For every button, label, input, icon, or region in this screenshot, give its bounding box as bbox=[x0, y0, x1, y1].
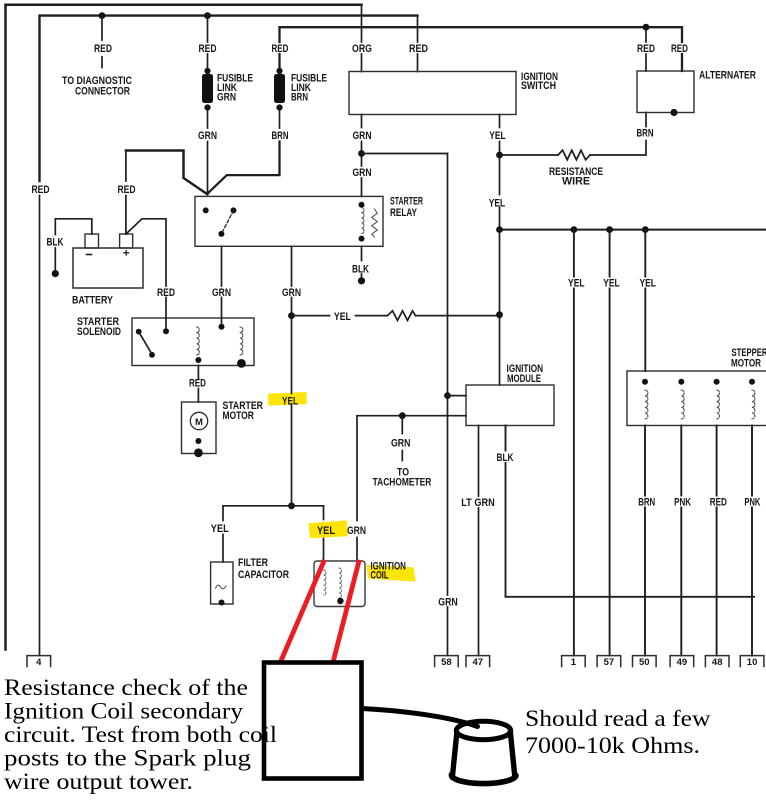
svg-text:SOLENOID: SOLENOID bbox=[77, 326, 121, 338]
wire YEL with resistor to ignition module riser bbox=[292, 315, 500, 317]
node YEL bus junction bbox=[496, 226, 503, 233]
wire RED stepper to terminal 48 bbox=[716, 426, 718, 656]
svg-text:GRN: GRN bbox=[438, 597, 458, 609]
coil tower cylinder sides bbox=[452, 732, 515, 778]
battery box bbox=[73, 248, 143, 288]
filter capacitor box bbox=[211, 562, 233, 604]
svg-text:WIRE: WIRE bbox=[562, 176, 590, 188]
svg-text:58: 58 bbox=[441, 657, 452, 668]
svg-text:YEL: YEL bbox=[317, 525, 335, 537]
wire: charge rail BRN/RED to alternator bbox=[280, 27, 683, 71]
resistor zigzag on YEL line bbox=[388, 311, 416, 321]
svg-text:ALTERNATER: ALTERNATER bbox=[699, 70, 756, 82]
stepper winding 2 bbox=[678, 379, 684, 385]
svg-text:GRN: GRN bbox=[282, 287, 301, 299]
ignition coil winding 1 bbox=[324, 570, 327, 595]
resistor zigzag of resistance wire bbox=[558, 150, 590, 160]
node YEL line at ignition switch riser bbox=[496, 311, 503, 318]
relay contact dots bbox=[203, 207, 237, 237]
ignition coil box bbox=[314, 561, 365, 607]
svg-text:YEL: YEL bbox=[603, 278, 620, 290]
wire RED stub to diagnostic connector bbox=[101, 16, 103, 68]
wire GRN from ignition switch bbox=[361, 115, 363, 197]
svg-text:RED: RED bbox=[118, 184, 136, 196]
battery terminals bbox=[85, 234, 99, 248]
wire RED rail drop to terminal 4 bbox=[39, 196, 41, 656]
svg-text:circuit. Test from both coil: circuit. Test from both coil bbox=[4, 722, 277, 747]
node YEL column 1 bbox=[571, 226, 578, 233]
terminal 4 bbox=[27, 656, 51, 667]
wire YEL to stepper motor bbox=[644, 230, 646, 371]
svg-text:PNK: PNK bbox=[744, 497, 760, 509]
red probe line left bbox=[280, 560, 325, 664]
wire RED into fusible link BRN bbox=[279, 111, 281, 128]
svg-text:BLK: BLK bbox=[352, 264, 369, 276]
highlight marker YEL on wire above ignition coil feed bbox=[268, 392, 307, 406]
svg-text:RED: RED bbox=[189, 378, 206, 390]
terminal 57 bbox=[597, 656, 621, 667]
highlight marker YEL GRN above ignition coil bbox=[309, 520, 348, 538]
svg-text:Should read a few: Should read a few bbox=[525, 706, 711, 732]
terminal 10 bbox=[740, 656, 764, 667]
wire BRN from fusible link down and into relay V bbox=[207, 142, 279, 194]
svg-text:MOTOR: MOTOR bbox=[731, 358, 761, 370]
svg-text:7000-10k Ohms.: 7000-10k Ohms. bbox=[525, 733, 700, 759]
svg-text:YEL: YEL bbox=[282, 396, 298, 408]
svg-text:ORG: ORG bbox=[352, 43, 372, 55]
highlight marker on IGNITION COIL label bbox=[367, 565, 416, 582]
wire PNK stepper to terminal 10 bbox=[751, 426, 753, 656]
svg-text:TACHOMETER: TACHOMETER bbox=[373, 477, 432, 489]
svg-text:1: 1 bbox=[571, 657, 577, 668]
wire YEL bus to right edge bbox=[500, 229, 766, 231]
svg-text:RELAY: RELAY bbox=[390, 207, 417, 219]
wire GRN relay output long run bbox=[291, 246, 293, 506]
terminal 1 bbox=[562, 656, 586, 667]
terminal 48 bbox=[705, 656, 729, 667]
svg-text:BLK: BLK bbox=[497, 452, 514, 464]
terminal 50 bbox=[633, 656, 657, 667]
node BLK ground dot bbox=[358, 277, 365, 284]
node GRN branch junction bbox=[358, 150, 365, 157]
svg-text:GRN: GRN bbox=[212, 287, 231, 299]
fusible link BRN bbox=[274, 68, 285, 111]
svg-text:COIL: COIL bbox=[371, 570, 389, 582]
coil tower cylinder top ellipse bbox=[456, 721, 510, 739]
wire GRN relay to starter solenoid bbox=[221, 246, 223, 318]
node junction on rail at diagnostic stub bbox=[99, 12, 106, 19]
starter solenoid box bbox=[132, 318, 254, 366]
wire YEL to ignition coil bbox=[323, 506, 325, 561]
wire YEL from ignition switch bbox=[499, 115, 501, 386]
ignition module box bbox=[466, 385, 554, 426]
fusible link GRN bbox=[202, 68, 213, 111]
relay coil zigzag bbox=[372, 209, 378, 237]
node junction charge rail at alternator RED bbox=[643, 24, 650, 31]
svg-text:M: M bbox=[195, 417, 203, 428]
svg-text:GRN: GRN bbox=[353, 130, 372, 142]
node GRN riser at module input bbox=[444, 392, 451, 399]
filter capacitor squiggle bbox=[216, 585, 227, 589]
svg-text:BRN: BRN bbox=[637, 128, 654, 140]
alternator box bbox=[637, 71, 694, 113]
stepper winding 3 bbox=[714, 379, 720, 385]
wire GRN from fusible link to starter relay bbox=[207, 111, 209, 195]
svg-text:GRN: GRN bbox=[353, 167, 372, 179]
svg-text:10: 10 bbox=[747, 657, 758, 668]
svg-text:BRN: BRN bbox=[638, 497, 655, 509]
wire: second rail RED bbox=[40, 16, 418, 181]
node BLK ground dot bbox=[52, 270, 59, 277]
solenoid coil 1 bbox=[197, 327, 200, 355]
node junction on rail at fusible link GRN bbox=[204, 12, 211, 19]
wire RED battery positive to starter solenoid bbox=[126, 219, 166, 318]
svg-text:RED: RED bbox=[409, 43, 428, 55]
svg-text:FILTER: FILTER bbox=[238, 557, 268, 569]
solenoid coil 2 bbox=[240, 327, 243, 355]
svg-text:PNK: PNK bbox=[674, 497, 691, 509]
wire RED alternator right input bbox=[681, 27, 683, 42]
resistance wire to alternator BRN bbox=[500, 113, 647, 156]
svg-text:57: 57 bbox=[604, 657, 615, 668]
svg-text:GRN: GRN bbox=[391, 438, 411, 450]
solenoid coil bottom dots bbox=[195, 357, 245, 368]
node YEL column 2 bbox=[606, 226, 613, 233]
wire module input upper bbox=[448, 395, 467, 397]
ignition switch box bbox=[349, 72, 516, 115]
annotation black box (spark plug wire) bbox=[264, 663, 362, 779]
red probe line right bbox=[333, 560, 360, 664]
svg-text:48: 48 bbox=[712, 657, 723, 668]
svg-text:RED: RED bbox=[157, 287, 175, 299]
wire RED alternator left input bbox=[645, 27, 647, 71]
node YEL column 3 bbox=[642, 226, 649, 233]
svg-text:BRN: BRN bbox=[291, 92, 308, 104]
svg-text:RED: RED bbox=[32, 184, 50, 196]
svg-text:CONNECTOR: CONNECTOR bbox=[75, 86, 130, 98]
wire YEL column to terminal 57 bbox=[609, 230, 611, 656]
wire RED drop to ignition switch bbox=[417, 16, 419, 72]
svg-text:RED: RED bbox=[637, 43, 655, 55]
solenoid input stubs bbox=[166, 318, 222, 328]
filter capacitor bottom dot bbox=[219, 600, 225, 606]
svg-text:YEL: YEL bbox=[489, 198, 506, 210]
solenoid input dots bbox=[163, 324, 225, 334]
svg-text:BLK: BLK bbox=[47, 237, 64, 249]
wire RED battery feed with V into relay bbox=[126, 151, 207, 195]
wire BLK battery negative bbox=[55, 219, 92, 270]
wire YEL tee to capacitor and coil bbox=[223, 505, 324, 507]
relay coil loops bbox=[362, 208, 365, 234]
svg-text:wire output tower.: wire output tower. bbox=[4, 769, 193, 794]
svg-text:YEL: YEL bbox=[489, 130, 506, 142]
node YEL tee junction bbox=[288, 502, 295, 509]
svg-text:RED: RED bbox=[710, 497, 727, 509]
svg-text:RED: RED bbox=[199, 43, 217, 55]
wire GRN stub to tachometer bbox=[401, 416, 403, 461]
node GRN tachometer junction bbox=[399, 412, 406, 419]
stepper winding 4 bbox=[749, 379, 755, 385]
svg-text:STARTER: STARTER bbox=[390, 196, 423, 208]
svg-text:LT GRN: LT GRN bbox=[461, 497, 495, 509]
relay switch arm dashed bbox=[221, 210, 233, 234]
svg-text:GRN: GRN bbox=[198, 130, 217, 142]
svg-text:SWITCH: SWITCH bbox=[521, 80, 556, 92]
terminal 58 bbox=[435, 656, 459, 667]
annotation pointer line bbox=[362, 709, 478, 727]
svg-text:49: 49 bbox=[677, 657, 688, 668]
node GRN at YEL crank line bbox=[288, 312, 295, 319]
wire GRN branch to ignition module riser bbox=[362, 153, 448, 155]
wire RED solenoid to starter motor bbox=[197, 366, 199, 403]
svg-text:GRN: GRN bbox=[217, 92, 236, 104]
stepper motor box bbox=[627, 371, 766, 426]
wire YEL column to terminal 1 bbox=[573, 230, 575, 656]
svg-text:RED: RED bbox=[94, 43, 112, 55]
wire GRN riser to ignition module and terminal 58 bbox=[447, 154, 449, 656]
wire PNK stepper to terminal 49 bbox=[680, 426, 682, 656]
stepper winding 1 bbox=[642, 379, 648, 385]
starter motor box bbox=[182, 402, 217, 454]
svg-text:RED: RED bbox=[272, 43, 289, 55]
node YEL at resistance wire bbox=[496, 152, 503, 159]
svg-text:50: 50 bbox=[639, 657, 650, 668]
wire BLK module ground run bbox=[506, 426, 755, 597]
wire BRN stepper to terminal 50 bbox=[644, 426, 646, 656]
wire YEL to filter capacitor bbox=[222, 506, 224, 562]
node terminal dot on alternator bottom bbox=[670, 109, 677, 116]
starter motor symbol bbox=[190, 412, 207, 429]
ignition coil dot bbox=[337, 598, 343, 604]
svg-text:YEL: YEL bbox=[211, 523, 229, 535]
svg-text:Resistance check of the: Resistance check of the bbox=[4, 675, 248, 700]
wire LT GRN module to terminal 47 bbox=[478, 426, 480, 656]
coil tower cylinder bottom arc bbox=[451, 775, 516, 784]
solenoid contact switch bbox=[136, 329, 155, 358]
wire: left border feed and top rail to ORG bbox=[6, 5, 362, 650]
wire RED into fusible link GRN bbox=[207, 16, 209, 69]
svg-text:BATTERY: BATTERY bbox=[72, 295, 114, 307]
starter motor dots bbox=[194, 438, 203, 457]
relay coil dots bbox=[359, 202, 365, 242]
svg-text:4: 4 bbox=[36, 657, 42, 668]
wire ORG drop to ignition switch bbox=[361, 5, 363, 72]
ignition coil winding 2 bbox=[339, 568, 342, 598]
terminal 47 bbox=[466, 656, 490, 667]
wire BLK relay ground stub bbox=[361, 246, 363, 278]
svg-text:47: 47 bbox=[473, 657, 484, 668]
svg-text:YEL: YEL bbox=[334, 311, 351, 323]
svg-text:GRN: GRN bbox=[347, 525, 366, 537]
wire GRN module lower input to ignition coil bbox=[357, 416, 466, 561]
svg-text:MOTOR: MOTOR bbox=[222, 410, 254, 422]
svg-text:YEL: YEL bbox=[568, 278, 585, 290]
starter relay box bbox=[195, 196, 383, 246]
terminal 49 bbox=[670, 656, 694, 667]
svg-text:RED: RED bbox=[671, 43, 688, 55]
wire RED down to battery positive bbox=[125, 151, 127, 235]
svg-text:MODULE: MODULE bbox=[507, 373, 541, 385]
svg-text:Ignition Coil secondary: Ignition Coil secondary bbox=[4, 699, 244, 724]
svg-text:YEL: YEL bbox=[639, 278, 656, 290]
svg-text:BRN: BRN bbox=[272, 130, 289, 142]
svg-text:CAPACITOR: CAPACITOR bbox=[238, 569, 289, 581]
svg-text:posts to the Spark plug: posts to the Spark plug bbox=[4, 746, 252, 771]
battery polarity marks bbox=[87, 254, 92, 256]
